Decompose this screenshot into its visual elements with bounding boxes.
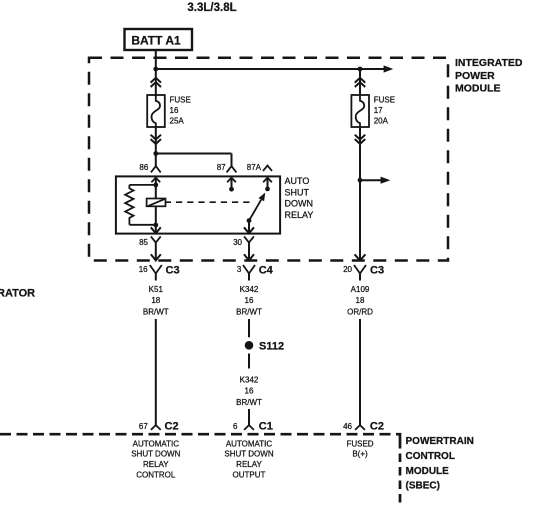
svg-text:16: 16 [139, 265, 148, 274]
svg-text:K342: K342 [240, 285, 259, 294]
svg-text:30: 30 [233, 238, 242, 247]
svg-text:86: 86 [139, 163, 148, 172]
svg-text:CONTROL: CONTROL [136, 471, 176, 480]
svg-text:BR/WT: BR/WT [236, 398, 262, 407]
svg-text:SHUT: SHUT [285, 187, 310, 197]
svg-text:RELAY: RELAY [236, 460, 262, 469]
svg-text:A109: A109 [351, 285, 370, 294]
svg-text:MODULE: MODULE [455, 83, 501, 95]
svg-text:3.3L/3.8L: 3.3L/3.8L [187, 2, 236, 14]
svg-text:BATT A1: BATT A1 [131, 34, 181, 48]
svg-text:18: 18 [356, 296, 365, 305]
svg-text:K51: K51 [149, 285, 164, 294]
svg-text:20A: 20A [374, 117, 389, 126]
svg-text:INTEGRATED: INTEGRATED [455, 57, 523, 69]
svg-text:C3: C3 [370, 265, 384, 277]
svg-text:OR/RD: OR/RD [347, 308, 373, 317]
svg-text:K342: K342 [240, 375, 259, 384]
svg-text:RELAY: RELAY [285, 210, 314, 220]
svg-text:16: 16 [170, 106, 179, 115]
svg-text:67: 67 [139, 422, 148, 431]
svg-text:POWER: POWER [455, 70, 495, 82]
svg-text:C2: C2 [165, 420, 179, 432]
svg-text:3: 3 [237, 265, 242, 274]
svg-text:BR/WT: BR/WT [236, 308, 262, 317]
svg-text:87A: 87A [247, 163, 262, 172]
svg-text:87: 87 [217, 163, 226, 172]
svg-text:FUSE: FUSE [170, 96, 191, 105]
svg-text:18: 18 [151, 296, 160, 305]
svg-text:AUTOMATIC: AUTOMATIC [226, 439, 273, 448]
svg-text:DOWN: DOWN [285, 199, 314, 209]
svg-text:6: 6 [233, 422, 238, 431]
svg-text:OUTPUT: OUTPUT [233, 471, 266, 480]
svg-text:RELAY: RELAY [143, 460, 169, 469]
svg-text:(SBEC): (SBEC) [406, 481, 440, 492]
svg-text:17: 17 [374, 106, 383, 115]
svg-text:FUSE: FUSE [374, 96, 395, 105]
svg-text:S112: S112 [259, 341, 284, 353]
svg-text:CONTROL: CONTROL [406, 451, 455, 462]
svg-text:C2: C2 [370, 420, 384, 432]
svg-text:16: 16 [245, 296, 254, 305]
svg-text:25A: 25A [170, 117, 185, 126]
svg-text:AUTOMATIC: AUTOMATIC [133, 439, 180, 448]
svg-text:C3: C3 [166, 265, 180, 277]
svg-text:RATOR: RATOR [0, 287, 35, 299]
svg-text:BR/WT: BR/WT [143, 308, 169, 317]
svg-text:AUTO: AUTO [285, 176, 310, 186]
svg-text:SHUT DOWN: SHUT DOWN [131, 450, 180, 459]
svg-text:C4: C4 [259, 265, 274, 277]
svg-text:16: 16 [245, 387, 254, 396]
svg-text:MODULE: MODULE [406, 466, 450, 477]
svg-text:46: 46 [343, 422, 352, 431]
svg-text:POWERTRAIN: POWERTRAIN [406, 436, 474, 447]
svg-text:C1: C1 [259, 420, 273, 432]
svg-text:B(+): B(+) [352, 450, 368, 459]
svg-text:20: 20 [343, 265, 352, 274]
svg-text:FUSED: FUSED [346, 439, 373, 448]
svg-text:85: 85 [139, 238, 148, 247]
svg-text:SHUT DOWN: SHUT DOWN [224, 450, 273, 459]
